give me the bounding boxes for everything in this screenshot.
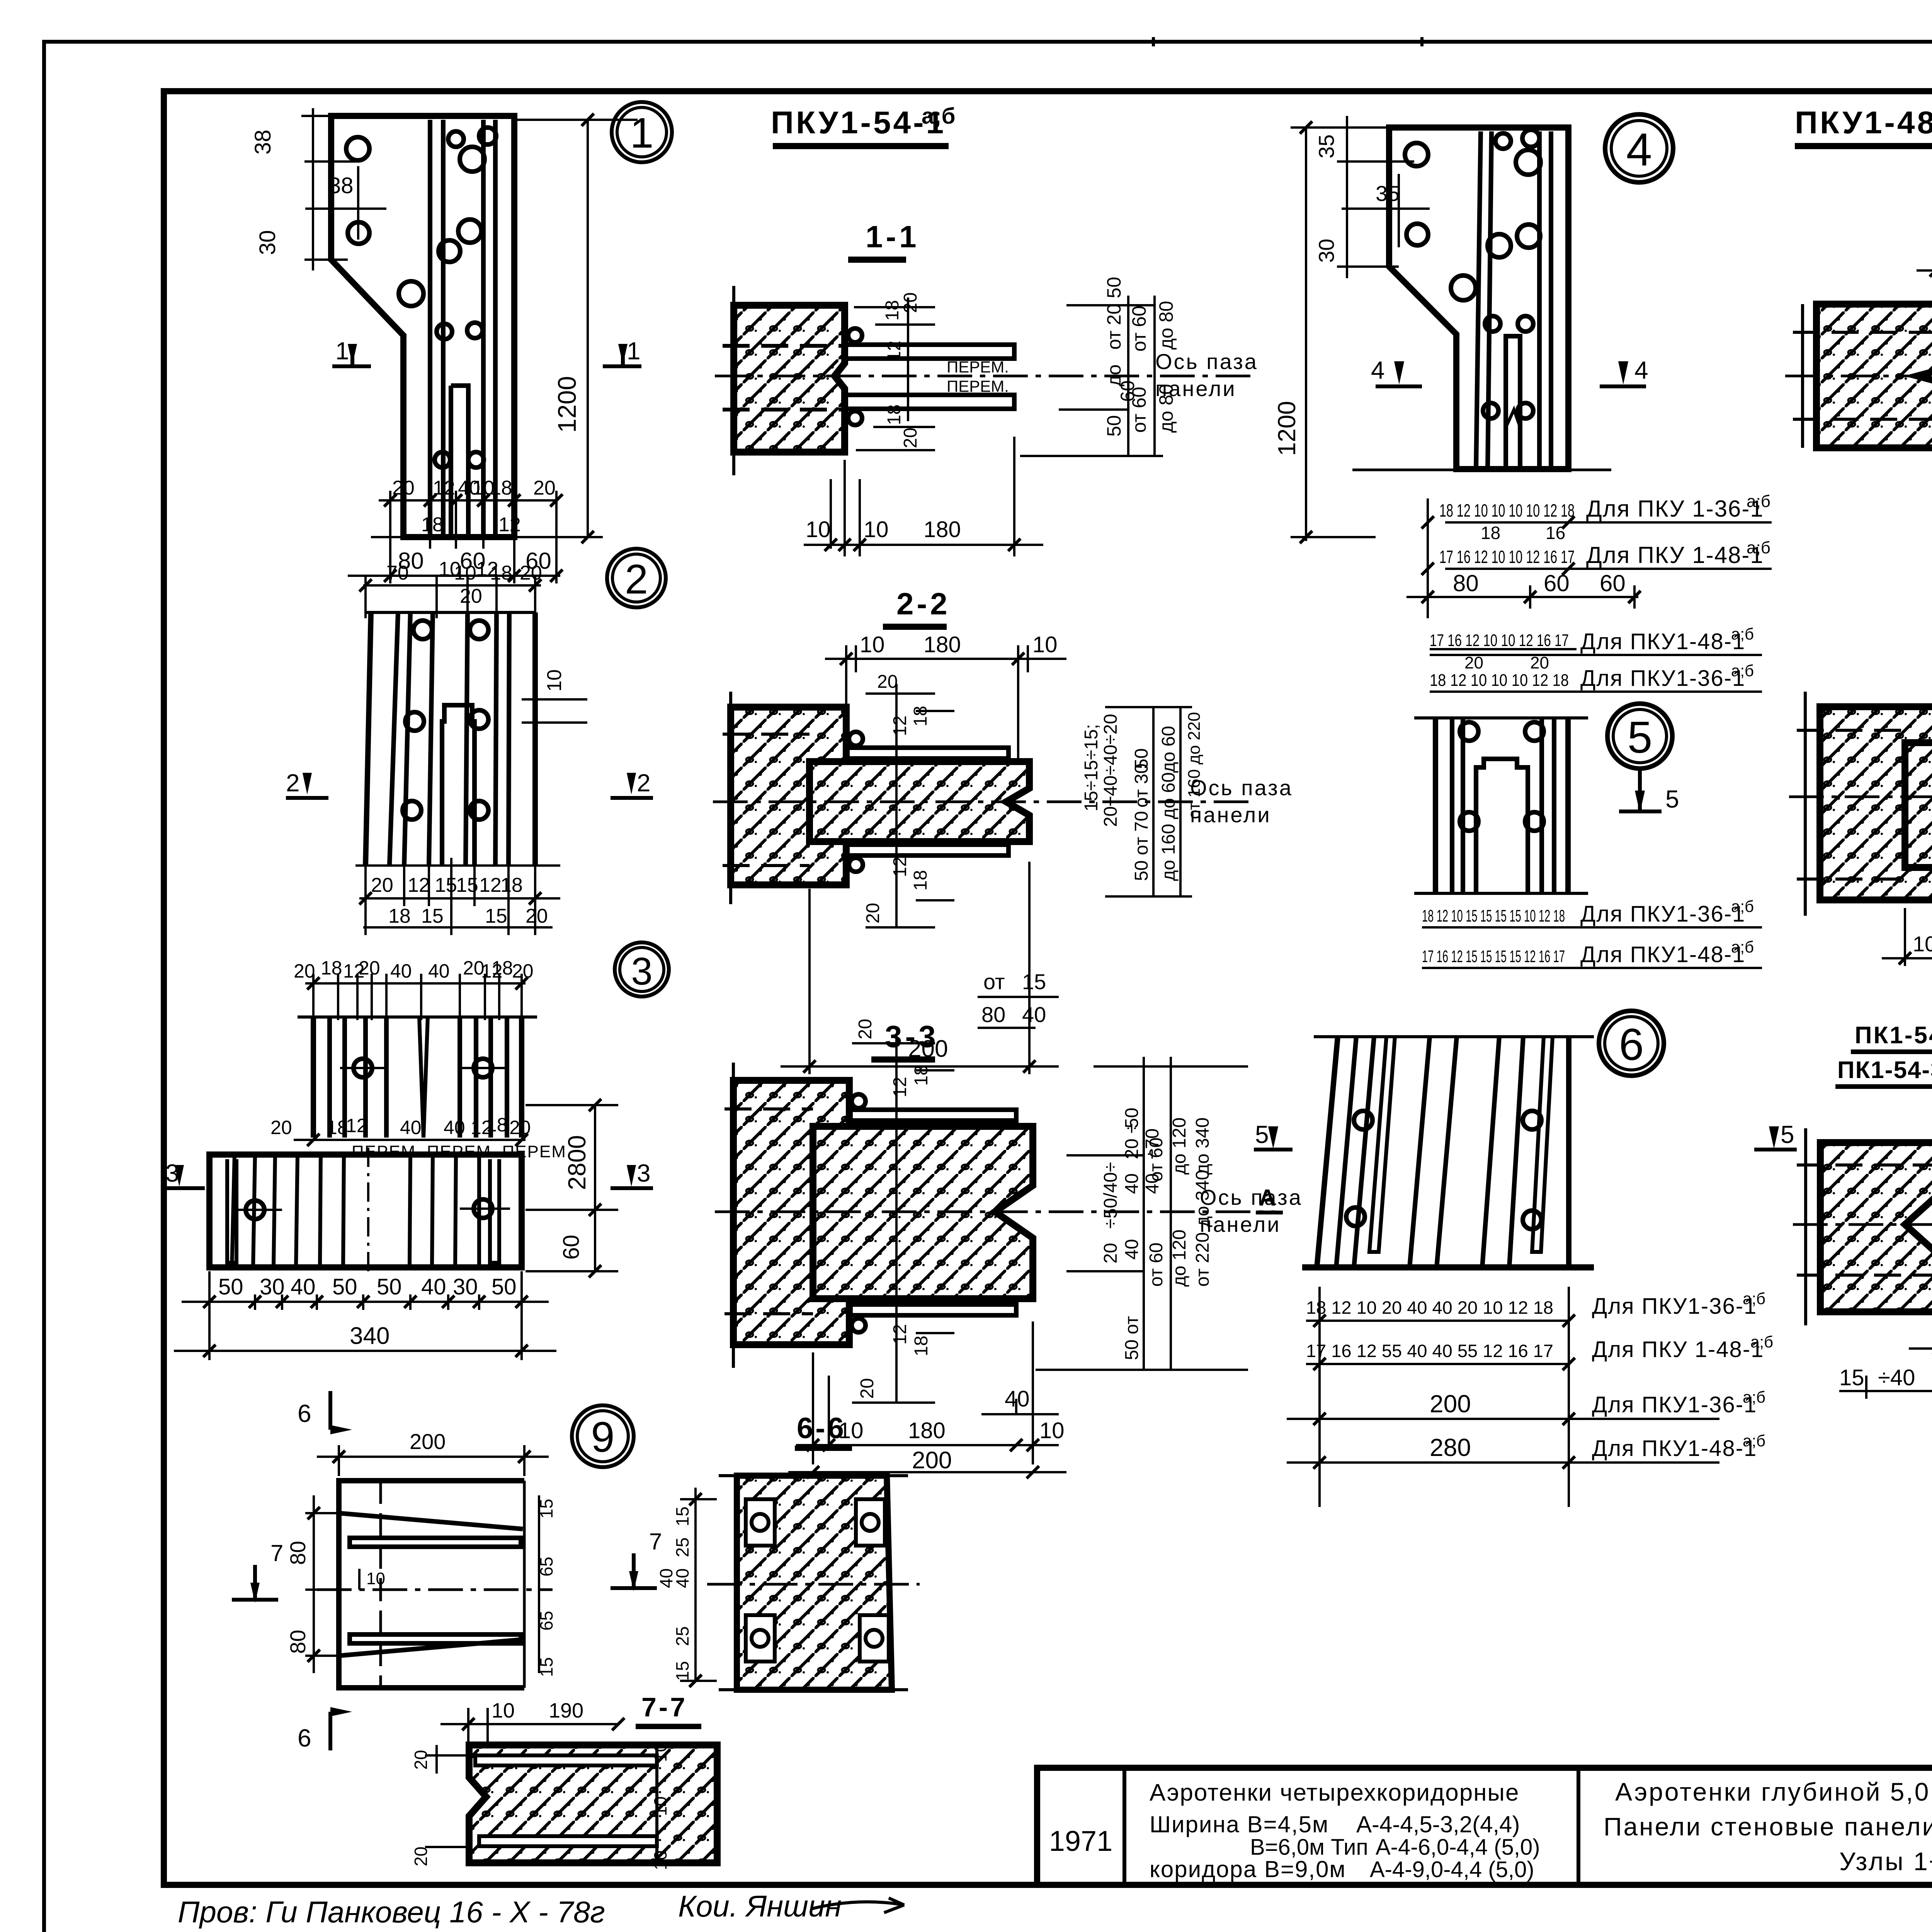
section 4-4 hatched block — [1816, 304, 1932, 448]
svg-text:35: 35 — [1314, 134, 1338, 158]
svg-text:Для ПКУ 1-48-1: Для ПКУ 1-48-1 — [1592, 1337, 1764, 1362]
svg-text:50 от 70: 50 от 70 — [1131, 811, 1152, 881]
svg-text:12: 12 — [890, 716, 910, 736]
section 3-3 right dim chains — [1036, 1057, 1248, 1370]
svg-text:10: 10 — [650, 1796, 670, 1816]
title block — [1037, 1768, 1932, 1885]
section 7-7 small dims — [425, 1745, 469, 1847]
svg-text:Для ПКУ1-48-1: Для ПКУ1-48-1 — [1592, 1436, 1757, 1461]
section 3-3 bottom dims 10 180 10 / 200 / 40 — [788, 1321, 1066, 1472]
svg-text:Аэротенки глубиной 5,0; 4,4;: Аэротенки глубиной 5,0; 4,4; 3,2м — [1615, 1777, 1932, 1806]
svg-text:50: 50 — [492, 1274, 517, 1299]
svg-text:до 60: до 60 — [1158, 772, 1179, 819]
section 3-3 axis line and label — [715, 1185, 1303, 1236]
svg-text:180: 180 — [923, 517, 961, 542]
svg-text:3-3: 3-3 — [885, 1019, 939, 1054]
bottom handwriting — [178, 1889, 904, 1929]
detail 2 holes — [403, 621, 488, 820]
svg-text:17 16 12 10 10 12 16 17: 17 16 12 10 10 12 16 17 — [1439, 547, 1575, 567]
svg-text:2: 2 — [286, 769, 300, 797]
detail 9 socket drawing — [317, 1481, 553, 1688]
svg-text:20: 20 — [512, 960, 534, 982]
svg-text:от: от — [983, 969, 1005, 994]
svg-text:80: 80 — [981, 1002, 1005, 1027]
svg-text:25: 25 — [672, 1537, 692, 1557]
detail 2 section marks 2 — [286, 773, 653, 798]
header label PKU1-54-1 — [771, 104, 955, 146]
svg-text:18: 18 — [884, 405, 905, 425]
svg-text:Ширина В=4,5м: Ширина В=4,5м — [1150, 1811, 1329, 1837]
svg-text:30: 30 — [260, 1274, 285, 1299]
svg-text:18: 18 — [911, 1065, 932, 1086]
svg-text:а;б: а;б — [1750, 1333, 1773, 1351]
svg-text:20: 20 — [460, 585, 482, 607]
svg-text:15: 15 — [1022, 969, 1046, 994]
header label PKU1-48-1; PKU1-36-1 — [1795, 104, 1932, 146]
svg-text:а;б: а;б — [1731, 662, 1754, 680]
svg-text:35: 35 — [1376, 181, 1400, 206]
svg-text:ПК1-54-3: ПК1-54-3 — [1837, 1057, 1932, 1083]
svg-text:10: 10 — [454, 562, 476, 584]
svg-text:12: 12 — [479, 874, 502, 896]
svg-text:20: 20 — [533, 477, 556, 499]
svg-text:Ось паза: Ось паза — [1190, 776, 1293, 800]
detail 1 section marks 1 — [332, 344, 641, 366]
detail 1 panel outline — [331, 116, 514, 537]
svg-text:20: 20 — [863, 903, 883, 923]
section 2-2 panel hatched with notch — [810, 762, 1029, 842]
svg-text:38: 38 — [250, 129, 276, 155]
svg-text:17 16 12 10 10 12 16 17: 17 16 12 10 10 12 16 17 — [1430, 631, 1569, 650]
section 2-2 rebars — [846, 732, 1009, 872]
svg-text:А: А — [1259, 1185, 1276, 1211]
node 10 header labels — [1835, 1022, 1932, 1087]
svg-text:а;б: а;б — [1731, 938, 1754, 956]
svg-text:Аэротенки четырехкоридорные: Аэротенки четырехкоридорные — [1150, 1779, 1519, 1806]
svg-text:40: 40 — [1022, 1002, 1046, 1027]
svg-text:а;б: а;б — [1747, 538, 1770, 557]
section 6-6 hatched strip — [707, 1476, 920, 1690]
svg-text:1: 1 — [627, 337, 641, 365]
svg-text:10: 10 — [366, 1569, 385, 1588]
section 6-6 corner inserts — [746, 1499, 889, 1662]
section 2-2 small dims — [863, 672, 931, 923]
section 2-2 right dim chains — [1105, 707, 1192, 896]
detail 1 right dim line 1200 — [514, 120, 638, 537]
svg-text:6: 6 — [298, 1724, 311, 1752]
section 2-2 bottom dims — [781, 862, 1059, 1074]
svg-text:18: 18 — [321, 957, 342, 979]
svg-text:ПК1-54-3; ПК1-48-3; ПК1-36-3: ПК1-54-3; ПК1-48-3; ПК1-36-3 — [1855, 1022, 1932, 1049]
detail 2 panel — [366, 612, 535, 866]
svg-text:40: 40 — [390, 960, 412, 982]
svg-text:40: 40 — [444, 1117, 465, 1138]
node 10 dims 80 / 15÷40 — [1839, 1287, 1932, 1399]
svg-text:18: 18 — [486, 1114, 508, 1136]
section 1-1 protruding rebars — [845, 328, 1014, 425]
svg-text:до 80: до 80 — [1155, 384, 1177, 433]
detail 6 dim row 2 — [1306, 1333, 1773, 1364]
svg-text:÷40: ÷40 — [1878, 1365, 1915, 1390]
svg-text:4: 4 — [1626, 124, 1652, 175]
svg-text:200: 200 — [410, 1429, 446, 1454]
detail 4 circled number — [1605, 114, 1673, 182]
svg-text:10: 10 — [543, 669, 566, 692]
svg-text:Панели стеновые панели пере: Панели стеновые панели перегородок — [1604, 1812, 1932, 1841]
svg-text:а;б: а;б — [1731, 625, 1754, 643]
detail 3 right dims 2800 / 60 — [526, 1105, 618, 1271]
svg-text:12: 12 — [346, 1115, 367, 1136]
svg-text:18 12 10 15 15 15 15 10 12 18: 18 12 10 15 15 15 15 10 12 18 — [1422, 906, 1565, 925]
detail 3 upper strip — [298, 1017, 537, 1138]
section 2-2 label — [883, 587, 951, 627]
detail 1 bottom dimension rows — [348, 491, 560, 583]
svg-text:70: 70 — [386, 562, 409, 584]
svg-text:18: 18 — [327, 1117, 348, 1138]
detail 4 bottom break line — [1352, 469, 1611, 471]
svg-text:а;б: а;б — [1743, 1432, 1765, 1450]
svg-text:А-4-6,0-4,4 (5,0): А-4-6,0-4,4 (5,0) — [1376, 1835, 1540, 1860]
svg-text:от 20 50: от 20 50 — [1103, 277, 1125, 350]
svg-text:Для ПКУ1-36-1: Для ПКУ1-36-1 — [1580, 666, 1745, 691]
section 3-3 left wall hatched — [733, 1080, 849, 1345]
detail 2 bottom dims — [355, 858, 560, 935]
svg-text:÷50/40÷: ÷50/40÷ — [1100, 1162, 1121, 1229]
svg-text:15÷15÷15;: 15÷15÷15; — [1081, 724, 1102, 811]
svg-text:60: 60 — [559, 1235, 584, 1260]
svg-text:2800: 2800 — [563, 1135, 591, 1190]
svg-text:18: 18 — [421, 514, 444, 536]
svg-text:3: 3 — [631, 950, 653, 993]
svg-text:18 12 10 20 40 40 20 1: 18 12 10 20 40 40 20 10 12 18 — [1306, 1298, 1553, 1318]
svg-text:200: 200 — [1430, 1390, 1471, 1418]
svg-text:ПКУ1-48-1: ПКУ1-48-1 — [1795, 105, 1932, 140]
detail 6 circled number — [1599, 1011, 1664, 1076]
svg-text:10: 10 — [806, 517, 831, 542]
svg-text:Пров: Ги Панковец 16 - X -: Пров: Ги Панковец 16 - X - 78г — [178, 1895, 605, 1929]
svg-text:а;б: а;б — [922, 104, 955, 129]
svg-text:15: 15 — [1839, 1365, 1864, 1390]
detail 4 row 80 60 60 — [1406, 570, 1638, 609]
svg-text:17 16 12 55 40 40 55 1: 17 16 12 55 40 40 55 12 16 17 — [1306, 1341, 1553, 1361]
svg-text:12: 12 — [884, 341, 905, 361]
svg-text:10: 10 — [864, 517, 889, 542]
svg-text:15: 15 — [421, 905, 444, 927]
svg-text:18: 18 — [910, 870, 931, 891]
detail 3 upper strip dims row — [305, 974, 526, 1020]
svg-text:30: 30 — [453, 1274, 478, 1299]
svg-text:65: 65 — [536, 1611, 556, 1631]
svg-text:50 от: 50 от — [1122, 1316, 1142, 1360]
svg-text:А-4-9,0-4,4 (5,0): А-4-9,0-4,4 (5,0) — [1370, 1857, 1534, 1882]
svg-text:20: 20 — [1530, 653, 1549, 672]
section 1-1 bottom dims 10 10 180 — [804, 437, 1043, 556]
svg-text:200: 200 — [912, 1447, 952, 1474]
detail 5 panel — [1414, 718, 1588, 893]
svg-text:25: 25 — [672, 1626, 692, 1646]
svg-text:60: 60 — [1600, 570, 1626, 596]
svg-text:20: 20 — [900, 293, 921, 313]
svg-text:40: 40 — [1122, 1239, 1142, 1260]
detail 5 circled number — [1607, 704, 1672, 769]
svg-text:до 120: до 120 — [1169, 1230, 1190, 1287]
detail 9 circled number — [572, 1405, 634, 1467]
svg-text:Для ПКУ1-48-1: Для ПКУ1-48-1 — [1580, 942, 1745, 967]
svg-text:от 60: от 60 — [1146, 1138, 1167, 1182]
svg-text:15: 15 — [672, 1661, 692, 1681]
svg-text:2: 2 — [625, 556, 648, 602]
svg-text:40: 40 — [291, 1274, 316, 1299]
svg-text:40: 40 — [428, 960, 450, 982]
svg-text:30: 30 — [1314, 239, 1338, 263]
svg-text:15: 15 — [485, 905, 507, 927]
section 2-2 wall edge lines — [723, 692, 810, 904]
detail 3 bottom dims — [174, 1271, 556, 1360]
svg-text:а;б: а;б — [1743, 1289, 1765, 1308]
detail 6 dim row 200 — [1287, 1388, 1765, 1419]
svg-text:до 340: до 340 — [1192, 1117, 1213, 1175]
detail 2 top dims — [363, 576, 587, 723]
section 6-6 pointer label — [795, 1412, 852, 1448]
section 1-1 hatched wall — [723, 286, 845, 475]
title block texts — [1049, 1776, 1932, 1888]
svg-text:190: 190 — [549, 1699, 583, 1722]
svg-text:20: 20 — [411, 1750, 431, 1770]
svg-text:от 60: от 60 — [1146, 1243, 1167, 1287]
section 2-2 top dims 10 180 10 — [825, 645, 1066, 765]
svg-text:4: 4 — [1371, 356, 1385, 384]
svg-text:10: 10 — [860, 632, 885, 657]
section 4-4 top dims 10 180 — [1917, 257, 1932, 344]
svg-text:15: 15 — [435, 874, 457, 896]
svg-text:80: 80 — [286, 1630, 310, 1654]
section 5-5 axis line — [1789, 796, 1932, 798]
svg-text:17 16 12 15 15 15 15 12 16 17: 17 16 12 15 15 15 15 12 16 17 — [1422, 947, 1565, 966]
svg-text:40: 40 — [400, 1117, 422, 1138]
svg-text:5: 5 — [1781, 1121, 1794, 1148]
svg-text:3: 3 — [637, 1159, 651, 1187]
svg-text:80: 80 — [1453, 570, 1479, 596]
detail 6 dim row 280 — [1287, 1432, 1765, 1463]
svg-text:340: 340 — [350, 1323, 389, 1349]
svg-text:12: 12 — [498, 514, 521, 536]
svg-text:до 60: до 60 — [1158, 726, 1179, 773]
svg-text:от 30: от 30 — [1131, 764, 1152, 808]
dimension slash ticks — [203, 114, 1932, 1730]
svg-text:12: 12 — [890, 1077, 910, 1097]
svg-text:Для ПКУ1-36-1: Для ПКУ1-36-1 — [1580, 901, 1745, 927]
section 5-5 panel hatched with notch — [1905, 743, 1932, 867]
section 3-3 panel hatched with notch — [813, 1126, 1033, 1299]
svg-text:20: 20 — [855, 1019, 876, 1039]
svg-text:40: 40 — [1005, 1386, 1030, 1412]
svg-text:60: 60 — [1544, 570, 1570, 596]
svg-text:20: 20 — [1464, 653, 1483, 672]
svg-text:18: 18 — [911, 1336, 932, 1356]
svg-text:180: 180 — [908, 1418, 946, 1443]
svg-text:15: 15 — [536, 1657, 556, 1677]
svg-text:20: 20 — [1100, 1243, 1121, 1264]
svg-text:40: 40 — [656, 1568, 676, 1588]
svg-text:1-1: 1-1 — [866, 219, 920, 254]
detail 5 upper dim rows — [1430, 625, 1762, 692]
svg-text:до 120: до 120 — [1169, 1117, 1190, 1175]
svg-text:1200: 1200 — [553, 376, 581, 433]
svg-text:4: 4 — [1634, 356, 1648, 384]
svg-text:1: 1 — [630, 109, 653, 157]
svg-text:Узлы 1÷10: Узлы 1÷10 — [1839, 1847, 1932, 1876]
svg-text:20: 20 — [857, 1378, 878, 1399]
detail 3 section marks — [166, 1165, 653, 1188]
detail 4 panel outline — [1389, 128, 1568, 469]
svg-text:180: 180 — [923, 632, 961, 657]
svg-text:Для ПКУ1-36-1: Для ПКУ1-36-1 — [1592, 1294, 1757, 1319]
svg-text:20: 20 — [270, 1117, 292, 1138]
svg-text:Ось паза: Ось паза — [1200, 1185, 1303, 1209]
svg-text:20÷40÷40÷20: 20÷40÷40÷20 — [1100, 714, 1121, 827]
detail 3 circled number — [615, 942, 669, 997]
svg-text:а;б: а;б — [1731, 897, 1754, 915]
detail 1 top-left dimensions — [301, 108, 410, 270]
svg-text:20: 20 — [411, 1847, 431, 1866]
svg-text:80: 80 — [286, 1541, 310, 1565]
detail 5 section mark 5 — [1619, 769, 1662, 813]
svg-text:7-7: 7-7 — [641, 1692, 687, 1722]
detail 4 left dims — [1291, 116, 1453, 541]
svg-text:1: 1 — [335, 337, 349, 365]
svg-text:10: 10 — [650, 1742, 670, 1762]
svg-text:20 ÷: 20 ÷ — [1122, 1123, 1142, 1159]
svg-text:50: 50 — [332, 1274, 357, 1299]
svg-text:20: 20 — [526, 905, 548, 927]
svg-text:Для ПКУ1-48-1: Для ПКУ1-48-1 — [1580, 629, 1745, 654]
svg-text:50: 50 — [377, 1274, 402, 1299]
svg-text:10: 10 — [1032, 632, 1058, 657]
section 5-5 left wall hatched — [1820, 707, 1932, 900]
svg-text:18: 18 — [882, 300, 903, 321]
svg-text:10: 10 — [650, 1850, 670, 1870]
svg-text:40: 40 — [1122, 1173, 1142, 1194]
detail 6 dim row 1 — [1306, 1287, 1765, 1507]
detail 3 lower dims row with perem — [294, 1139, 526, 1141]
detail 1 rebar holes — [346, 128, 496, 468]
svg-text:1200: 1200 — [1273, 401, 1301, 456]
svg-text:6: 6 — [298, 1400, 311, 1427]
section 3-3 small dims top/bottom — [855, 1019, 932, 1399]
svg-text:15: 15 — [672, 1507, 692, 1526]
svg-text:18: 18 — [1481, 523, 1500, 543]
svg-text:20: 20 — [294, 960, 315, 982]
detail 9 section marks 7 — [232, 1553, 657, 1603]
section 6-6 left dim column — [680, 1488, 717, 1681]
section 1-1 label — [848, 219, 920, 260]
svg-text:20: 20 — [900, 428, 921, 448]
svg-text:2: 2 — [637, 769, 651, 797]
svg-text:20: 20 — [359, 957, 380, 979]
svg-text:3: 3 — [165, 1159, 179, 1187]
svg-text:от 160 до 220: от 160 до 220 — [1185, 712, 1204, 819]
svg-text:12: 12 — [890, 857, 910, 877]
svg-text:12: 12 — [408, 874, 430, 896]
node 10 hatched block — [1820, 1143, 1932, 1312]
section 3-3 rebars — [849, 1094, 1016, 1332]
svg-text:40: 40 — [421, 1274, 446, 1299]
svg-text:65: 65 — [536, 1557, 556, 1577]
detail 1 circled number — [612, 102, 672, 162]
svg-text:18 12 10 10 10 10 12 18: 18 12 10 10 10 10 12 18 — [1439, 500, 1575, 520]
detail 6 section marks 5 — [1254, 1126, 1797, 1150]
svg-text:а;б: а;б — [1747, 492, 1770, 511]
section 4-4 axis line — [1785, 375, 1932, 378]
svg-text:ПЕРЕМ.: ПЕРЕМ. — [947, 358, 1009, 376]
section 3-3 label — [871, 1019, 939, 1060]
svg-text:Для ПКУ 1-36-1: Для ПКУ 1-36-1 — [1586, 496, 1764, 522]
detail 9 section marks 6 — [330, 1391, 352, 1750]
svg-text:20: 20 — [371, 874, 393, 896]
svg-text:50: 50 — [1103, 415, 1125, 437]
detail 2 circled number — [607, 549, 666, 607]
svg-text:ПКУ1-54-1: ПКУ1-54-1 — [771, 105, 946, 140]
svg-text:18: 18 — [910, 706, 931, 726]
section 1-1 right dim chains — [1020, 296, 1163, 456]
svg-text:от 220 до 340: от 220 до 340 — [1192, 1170, 1213, 1287]
section 1-1 small dims left — [854, 298, 935, 450]
svg-text:9: 9 — [591, 1413, 614, 1461]
svg-text:20: 20 — [877, 672, 898, 692]
svg-text:а;б: а;б — [1743, 1388, 1765, 1406]
detail 4 dim row PKU1-48 — [1439, 538, 1772, 569]
section 7-7 hatched bar — [469, 1745, 717, 1863]
svg-text:2-2: 2-2 — [896, 587, 951, 621]
detail 4 holes — [1405, 130, 1541, 418]
section 7-7 label and dims — [440, 1692, 701, 1747]
svg-text:5: 5 — [1255, 1121, 1269, 1148]
section 3-3 wall edges — [724, 1063, 813, 1368]
svg-text:от 60: от 60 — [1128, 387, 1150, 433]
svg-text:А-4-4,5-3,2(4,4): А-4-4,5-3,2(4,4) — [1356, 1811, 1520, 1837]
svg-text:16: 16 — [1546, 523, 1565, 543]
svg-text:280: 280 — [1430, 1434, 1471, 1461]
svg-text:ПЕРЕМ.: ПЕРЕМ. — [947, 377, 1009, 395]
detail 9 dims — [305, 1445, 549, 1673]
svg-text:Для ПКУ 1-48-1: Для ПКУ 1-48-1 — [1586, 542, 1764, 568]
section 2-2 axis line and label — [713, 776, 1293, 827]
svg-text:15: 15 — [456, 874, 478, 896]
svg-text:18: 18 — [500, 874, 523, 896]
svg-text:30: 30 — [255, 230, 280, 255]
section 2-2 left wall hatched — [731, 707, 846, 885]
svg-text:10: 10 — [492, 1699, 515, 1722]
detail 4 dim row PKU1-36 — [1428, 492, 1772, 618]
section 1-1 axis line and label — [715, 349, 1258, 401]
svg-text:18 12 10 10 10 12 18: 18 12 10 10 10 12 18 — [1430, 671, 1569, 690]
svg-text:Для ПКУ1-36-1: Для ПКУ1-36-1 — [1592, 1392, 1757, 1417]
outer border small ticks top — [1152, 37, 1155, 46]
svg-text:12: 12 — [890, 1324, 910, 1345]
svg-text:6-6: 6-6 — [797, 1412, 846, 1445]
svg-text:6: 6 — [1619, 1019, 1644, 1070]
svg-text:18: 18 — [388, 905, 411, 927]
detail 4 section marks 4 — [1376, 361, 1646, 386]
svg-text:18: 18 — [490, 477, 512, 499]
section 5-5 small dims below — [1882, 881, 1932, 966]
detail 6 slanted panel — [1302, 1037, 1594, 1267]
svg-text:5: 5 — [1628, 712, 1653, 762]
svg-text:до 160: до 160 — [1158, 824, 1179, 881]
svg-text:10: 10 — [1913, 932, 1932, 956]
svg-text:7: 7 — [270, 1540, 283, 1566]
svg-text:15: 15 — [536, 1499, 556, 1519]
